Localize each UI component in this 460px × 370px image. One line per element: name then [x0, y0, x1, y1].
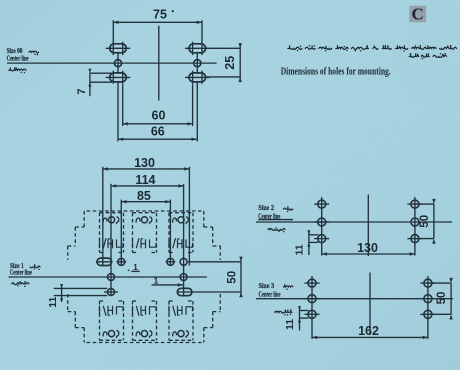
size2 center line	[256, 221, 452, 223]
svg-text:1: 1	[133, 262, 138, 272]
size3 central axis	[369, 273, 371, 336]
svg-text:Center line: Center line	[10, 268, 32, 276]
svg-text:Center line: Center line	[259, 291, 281, 299]
size2 dim 50	[415, 203, 434, 205]
svg-text:114: 114	[135, 173, 155, 187]
size2 dim 11	[309, 234, 319, 236]
svg-text:11: 11	[293, 244, 305, 255]
size3 left column	[311, 276, 313, 339]
size3 center line	[256, 298, 453, 300]
size1 dim 11	[54, 287, 108, 289]
svg-text:Dimensions of holes for mounti: Dimensions of holes for mounting.	[281, 66, 391, 77]
size1 dim 130	[103, 168, 190, 170]
size1 dim 50	[188, 261, 241, 263]
size1 holes row B	[108, 274, 115, 281]
svg-text:50: 50	[436, 292, 448, 305]
size3 right column	[427, 276, 429, 339]
size3 dim 11	[300, 310, 309, 312]
size1 body outline dashed	[87, 210, 202, 212]
svg-text:75: 75	[153, 7, 167, 21]
size00 column x=197.3 slots and hole	[192, 42, 194, 55]
size3 dim 162	[312, 336, 428, 338]
svg-text:50: 50	[226, 271, 238, 284]
svg-text:1: 1	[154, 276, 159, 286]
section marker C	[409, 6, 426, 23]
size00 column x=118.0 slots and hole	[112, 42, 114, 55]
size1 holes row C	[108, 289, 115, 296]
size1 fuse unit bottom x=144.5	[132, 301, 134, 340]
svg-text:25: 25	[223, 56, 237, 70]
svg-text:7: 7	[76, 88, 88, 94]
svg-text:Size 2: Size 2	[258, 205, 274, 213]
verticals to 60/66 dims	[117, 82, 119, 141]
svg-text:11: 11	[47, 296, 59, 307]
size1 fuse unit bottom x=181.0	[168, 301, 170, 340]
svg-text:50: 50	[419, 215, 431, 228]
size1 dim 85	[121, 201, 170, 203]
svg-text:66: 66	[151, 124, 165, 138]
dim 66	[118, 138, 197, 140]
size00 central axis	[158, 26, 160, 101]
farsi caption line 1	[440, 45, 457, 49]
svg-text:C: C	[412, 5, 424, 24]
farsi caption line 2	[433, 55, 447, 57]
svg-text:60: 60	[152, 109, 166, 123]
size00 center line	[7, 62, 217, 64]
svg-text:130: 130	[357, 241, 378, 255]
size1 fuse unit bottom x=111.5	[99, 301, 101, 340]
size1 holes row A	[97, 258, 112, 265]
dim 60	[123, 123, 193, 125]
size2 central axis	[367, 195, 369, 257]
svg-text:11: 11	[284, 319, 296, 330]
svg-text:85: 85	[137, 189, 151, 203]
size3 dim 50	[428, 282, 451, 284]
size2 right column	[414, 197, 416, 256]
svg-text:Center line: Center line	[7, 54, 29, 62]
size1 extension verticals	[102, 167, 104, 266]
dim 25	[206, 47, 240, 49]
size2 dim 130	[322, 253, 415, 255]
svg-text:130: 130	[134, 156, 155, 170]
size1 fuse unit top x=144.5	[132, 213, 134, 253]
size1 fuse unit top x=181.0	[168, 213, 170, 253]
dim 75	[113, 21, 202, 23]
size1 note 1a	[128, 270, 130, 272]
svg-text:162: 162	[358, 324, 379, 338]
size2 left column	[321, 197, 323, 256]
size1 center line	[9, 276, 208, 278]
dim 7	[90, 72, 112, 74]
svg-text:Size 3: Size 3	[259, 282, 275, 290]
size1 fuse unit top x=111.5	[99, 213, 101, 253]
size1 dim 114	[111, 185, 184, 187]
